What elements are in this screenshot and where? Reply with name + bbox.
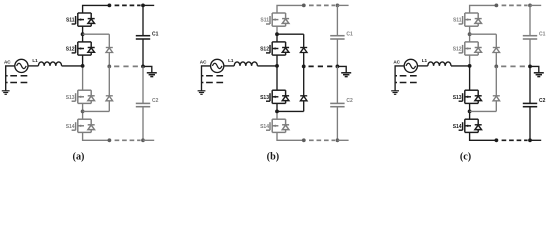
wire junction J2 to S14 drain [469, 111, 471, 119]
wire top rail stub [143, 4, 154, 6]
wire top rail dashed link [115, 4, 141, 6]
svg-text:S12: S12 [66, 47, 75, 53]
node top rail right [528, 4, 532, 8]
circuit (b): zero state, S12+S13 with clamp diodes [198, 4, 353, 163]
wire C1 top lead [142, 5, 144, 35]
wire clamp D1 to midpoint [108, 53, 110, 67]
wire C1 top lead [336, 5, 338, 35]
node top rail right [336, 4, 340, 8]
wire AC right lead [417, 65, 427, 67]
circuit (a): positive state, S11+S12 conducting into C1 [2, 4, 159, 163]
capacitor C2 [330, 103, 344, 106]
svg-text:S11: S11 [66, 18, 75, 24]
wire midpoint to C2 [142, 66, 144, 103]
wire C1 top lead [529, 5, 531, 35]
MOSFET S11: symbol [459, 13, 482, 26]
node bottom rail right [336, 138, 340, 142]
wire clamp midpoint to D2 [108, 66, 110, 95]
wire J1 to clamp branch [277, 33, 304, 35]
svg-text:S13: S13 [66, 95, 75, 101]
wire S14 source to bottom rail [277, 132, 304, 140]
junction J2 [81, 110, 85, 114]
wire L1 to node A [257, 65, 277, 67]
wire junction J1 to S12 drain [469, 34, 471, 42]
wire neutral dashed link [309, 65, 336, 67]
svg-text:S14: S14 [260, 124, 269, 130]
wire C2 bottom lead [142, 107, 144, 141]
node bottom rail right [141, 138, 145, 142]
wire S12 source to node A [82, 55, 84, 66]
wire clamp D2 to J2 link [495, 101, 497, 112]
wire J1 to clamp branch [470, 33, 497, 35]
junction J2 [275, 110, 279, 114]
svg-text:S11: S11 [453, 18, 462, 24]
svg-text:(b): (b) [267, 151, 279, 162]
svg-text:AC: AC [393, 60, 400, 65]
svg-text:S11: S11 [260, 18, 269, 24]
wire clamp D2 to J2 link [108, 101, 110, 112]
MOSFET S14: symbol [72, 119, 95, 132]
svg-text:S14: S14 [453, 124, 462, 130]
wire clamp D1 to midpoint [495, 53, 497, 67]
wire clamp midpoint to D2 [495, 66, 497, 95]
wire midpoint to ground stub [143, 66, 152, 72]
inductor L1 [38, 62, 61, 66]
wire C1 bottom lead [529, 39, 531, 66]
node DC midpoint [528, 65, 532, 69]
svg-text:S13: S13 [453, 95, 462, 101]
wire S12 source to node A [469, 55, 471, 66]
wire neutral dashed link [501, 65, 528, 67]
ground (DC midpoint) [534, 73, 544, 77]
node bottom rail left [495, 138, 499, 142]
node top rail left [495, 4, 499, 8]
AC source Va [15, 59, 28, 72]
node DC midpoint [336, 65, 340, 69]
wire AC right lead [28, 65, 38, 67]
junction J1 [275, 32, 279, 36]
wire top rail to S11 drain [470, 5, 497, 13]
wire bottom rail dashed link [309, 139, 335, 141]
wire neutral dashed link [114, 65, 141, 67]
wire clamp D2 to J2 link [303, 101, 305, 112]
wire S11 source to junction J1 [276, 26, 278, 34]
wire clamp branch upper [303, 34, 305, 47]
MOSFET S14: symbol [266, 119, 289, 132]
wire midpoint to ground stub [337, 66, 346, 72]
ground (DC midpoint) [147, 73, 157, 77]
svg-text:C1: C1 [152, 31, 159, 37]
clamp diode D2 [300, 96, 307, 101]
MOSFET S11: symbol [266, 13, 289, 26]
MOSFET S11: symbol [72, 13, 95, 26]
capacitor C1 [523, 36, 537, 39]
inductor L1 [234, 62, 257, 66]
wire junction J2 to S14 drain [82, 111, 84, 119]
svg-text:S14: S14 [66, 124, 75, 130]
svg-text:S12: S12 [260, 47, 269, 53]
MOSFET S12: symbol [72, 42, 95, 55]
MOSFET S12: symbol [266, 42, 289, 55]
wire AC right lead [224, 65, 234, 67]
wire S14 source to bottom rail [470, 132, 497, 140]
clamp diode D2 [493, 96, 500, 101]
AC source Vb [211, 59, 224, 72]
capacitor C2 [136, 103, 150, 106]
node clamp midpoint [107, 65, 111, 69]
capacitor C1 [330, 36, 344, 39]
svg-text:S13: S13 [260, 95, 269, 101]
wire bottom rail stub [143, 139, 154, 141]
wire AC left lead down [395, 66, 404, 91]
wire bottom rail dashed link [502, 139, 528, 141]
svg-text:(a): (a) [73, 151, 85, 162]
wire C1 bottom lead [142, 39, 144, 66]
ground (DC midpoint) [341, 73, 351, 77]
node DC midpoint [141, 65, 145, 69]
svg-text:C1: C1 [346, 31, 353, 37]
svg-text:C2: C2 [152, 98, 159, 104]
node clamp midpoint [494, 65, 498, 69]
wire clamp branch to J2 [83, 110, 110, 112]
clamp diode D1 [300, 48, 307, 53]
wire top rail dashed link [502, 4, 528, 6]
MOSFET S12: symbol [459, 42, 482, 55]
wire midpoint to ground stub [530, 66, 539, 72]
wire junction J1 to S12 drain [82, 34, 84, 42]
dashed current-path marks near source [6, 75, 27, 77]
svg-text:C2: C2 [346, 98, 353, 104]
wire clamp D1 to midpoint [303, 53, 305, 67]
node bottom rail left [108, 138, 112, 142]
node bottom rail left [302, 138, 306, 142]
wire node A to S13 drain [82, 66, 84, 90]
MOSFET S14: symbol [459, 119, 482, 132]
junction J1 [81, 32, 85, 36]
ground (source side) [2, 91, 10, 95]
wire clamp midpoint to D2 [303, 66, 305, 95]
wire L1 to node A [451, 65, 470, 67]
wire midpoint to C2 [336, 66, 338, 103]
ground (source side) [198, 91, 206, 95]
wire top rail to S11 drain [277, 5, 304, 13]
dashed current-path marks near source [396, 75, 417, 77]
svg-text:(c): (c) [460, 151, 471, 162]
circuit (c): negative state, S13+S14 conducting into C2 [391, 4, 545, 163]
junction J1 [468, 32, 472, 36]
svg-text:C2: C2 [539, 98, 546, 104]
svg-text:AC: AC [4, 60, 11, 65]
node top rail left [108, 4, 112, 8]
clamp diode D1 [106, 48, 113, 53]
wire AC left lead down [6, 66, 15, 91]
wire S14 source to bottom rail [83, 132, 110, 140]
wire C2 bottom lead [336, 107, 338, 141]
node top rail left [302, 4, 306, 8]
wire bottom rail dashed link [115, 139, 141, 141]
AC source Vc [404, 59, 417, 72]
wire bottom rail stub [530, 139, 541, 141]
capacitor C1 [136, 36, 150, 39]
node A (input) [468, 64, 472, 68]
svg-text:AC: AC [200, 60, 207, 65]
wire S13 source to junction J2 [469, 103, 471, 111]
wire S11 source to junction J1 [82, 26, 84, 34]
MOSFET S13: symbol [72, 90, 95, 103]
svg-text:L1: L1 [422, 58, 428, 63]
node A (input) [275, 64, 279, 68]
wire junction J2 to S14 drain [276, 111, 278, 119]
wire junction J1 to S12 drain [276, 34, 278, 42]
wire L1 to node A [62, 65, 83, 67]
dashed current-path marks near source [202, 75, 223, 77]
wire bottom rail stub [337, 139, 348, 141]
capacitor C2 [523, 103, 537, 106]
wire S13 source to junction J2 [82, 103, 84, 111]
node bottom rail right [528, 138, 532, 142]
wire top rail dashed link [309, 4, 335, 6]
svg-text:S12: S12 [453, 47, 462, 53]
svg-text:L1: L1 [228, 58, 234, 63]
wire J1 to clamp branch [83, 33, 110, 35]
svg-text:L1: L1 [32, 58, 38, 63]
wire midpoint to C2 [529, 66, 531, 103]
clamp diode D1 [493, 48, 500, 53]
wire clamp branch to J2 [470, 110, 497, 112]
wire clamp branch upper [495, 34, 497, 47]
wire top rail to S11 drain [83, 5, 110, 13]
wire S13 source to junction J2 [276, 103, 278, 111]
MOSFET S13: symbol [459, 90, 482, 103]
wire S11 source to junction J1 [469, 26, 471, 34]
node clamp midpoint [302, 65, 306, 69]
MOSFET S13: symbol [266, 90, 289, 103]
junction J2 [468, 110, 472, 114]
wire S12 source to node A [276, 55, 278, 66]
svg-text:C1: C1 [539, 31, 546, 37]
ground (source side) [391, 91, 399, 95]
wire top rail stub [337, 4, 348, 6]
node top rail right [141, 4, 145, 8]
wire C2 bottom lead [529, 107, 531, 141]
inductor L1 [428, 62, 451, 66]
wire AC left lead down [202, 66, 211, 91]
wire node A to S13 drain [276, 66, 278, 90]
wire C1 bottom lead [336, 39, 338, 66]
clamp diode D2 [106, 96, 113, 101]
wire clamp branch to J2 [277, 110, 304, 112]
node A (input) [81, 64, 85, 68]
wire clamp branch upper [108, 34, 110, 47]
wire top rail stub [530, 4, 541, 6]
wire node A to S13 drain [469, 66, 471, 90]
